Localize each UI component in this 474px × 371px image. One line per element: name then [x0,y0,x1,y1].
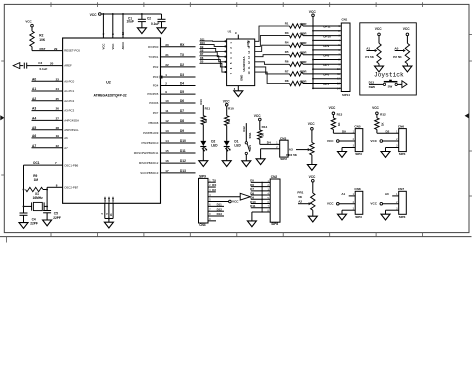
wire R14 to CN1 pin 1 net D4 [260,139,280,144]
svg-text:RST: RST [40,47,46,51]
svg-text:1K: 1K [260,133,264,137]
svg-text:C3: C3 [38,61,42,65]
svg-text:A3: A3 [289,148,293,152]
ground under D2 [199,161,208,167]
wire net D7 [161,112,196,114]
svg-text:SIP8: SIP8 [271,222,278,226]
svg-text:A6: A6 [32,134,36,138]
svg-text:R8: R8 [285,79,289,83]
svg-text:28: 28 [56,126,60,130]
svg-text:R10: R10 [228,107,234,111]
pin label OSC1-PB6 [64,163,78,167]
svg-text:A5PC5SCL: A5PC5SCL [64,128,79,132]
pin 15 / net label D11 [165,149,186,153]
svg-text:D7: D7 [180,109,184,113]
capacitor C3 0.1uF [20,61,48,71]
svg-text:VCC: VCC [327,202,334,206]
svg-text:32: 32 [165,63,169,67]
svg-text:26: 26 [56,107,60,111]
svg-text:R6: R6 [285,60,289,64]
wire / label 470R OP7 [300,60,342,67]
label A5 / pin 28 [32,126,59,130]
power VCC symbol (PR2) [308,122,315,130]
svg-text:SIP3: SIP3 [399,215,406,219]
resistor R11 1K [201,105,210,125]
svg-text:C2: C2 [147,17,151,21]
bottom border zone ticks [51,233,423,237]
wire OSC1 net [24,165,63,213]
svg-text:19: 19 [56,134,60,138]
label C1 10uF [127,17,134,24]
svg-text:1M: 1M [34,178,39,182]
svg-text:22: 22 [56,144,60,148]
connector CN4 body [341,23,350,92]
pin 13 / net label D9 [165,129,184,133]
wire R12 to CN6 pin 1 net D2 [377,129,399,133]
svg-text:VCC: VCC [254,114,261,118]
svg-text:D7: D7 [200,52,204,56]
ground under CN7 [381,214,390,220]
wire CN7 pin 2 VCC [383,201,399,204]
pin label A0-PC0 [64,79,74,83]
svg-text:31: 31 [165,53,169,57]
svg-text:D13: D13 [199,99,203,105]
potentiometer PR1 5K [297,182,315,210]
wire CN7 pin 3 to ground [386,207,399,214]
pin 17 / net label D13 [165,169,186,173]
svg-text:1K: 1K [227,119,231,123]
wire CN2 pin 6 net D10 [250,200,270,204]
wire net A4 [32,119,63,121]
pin 10 / net label D6 [165,99,184,103]
svg-text:1K: 1K [337,122,341,126]
pin label A3-PC3 [64,109,74,113]
wire CN3 pin 8 net D13 [208,212,224,216]
power VCC tap (CN5) [327,139,339,143]
wire CN8 pin 1 net A1 [341,192,355,196]
resistor R13 1K [331,115,341,130]
svg-text:13: 13 [165,129,169,133]
svg-text:OSC2-PB7: OSC2-PB7 [64,186,78,190]
pin 11 / net label D7 [165,109,184,113]
wire SW1 top [245,123,247,142]
wire PR1 to ground [312,210,314,216]
wire C5 to ground [46,213,48,220]
pin 32 / net label D2 [165,63,184,67]
svg-text:10: 10 [165,99,169,103]
svg-text:25: 25 [56,97,60,101]
pin label PW/D6 [149,101,158,105]
svg-text:SIP3: SIP3 [355,152,362,156]
connector CN6 labels [398,124,406,156]
ic U1 ULN2003A body [227,39,255,86]
svg-text:D8: D8 [180,119,184,123]
wire U2 power pin 6 stub [112,13,114,38]
label D13 SW0 [369,80,376,89]
pin label VCC [111,44,115,50]
svg-text:RESET-PC6: RESET-PC6 [64,49,80,53]
pin numbers 3 5 21 [102,213,113,217]
wires U1 outputs fan to resistors [255,26,290,84]
svg-text:D4: D4 [180,82,184,86]
resistor R3 470R [285,31,303,38]
connector CN2 body [270,179,280,222]
svg-text:D6: D6 [200,56,204,60]
svg-text:D12: D12 [217,207,223,211]
resistor R12 1K [375,115,385,130]
connector CN3 labels [199,174,206,227]
svg-text:D10: D10 [180,139,186,143]
net labels D11-D5 (U1 inputs) [200,37,205,63]
svg-text:PD7: PD7 [153,111,159,115]
capacitor C1 [138,19,146,21]
svg-text:D5: D5 [200,60,204,64]
svg-text:A0: A0 [394,46,398,50]
svg-text:SW1: SW1 [248,144,252,151]
led D2 [200,140,218,152]
connector CN6 body [399,129,407,152]
svg-text:A1: A1 [366,46,370,50]
power VCC symbol (CN4) [309,10,317,17]
wire CN2 vertical tie [261,182,262,213]
svg-text:PW/D6: PW/D6 [149,101,158,105]
svg-text:22PF: 22PF [53,216,61,220]
svg-text:PR2 5K: PR2 5K [286,153,298,157]
svg-text:A2: A2 [32,97,36,101]
wire net D8 [161,122,196,124]
wire VCC distribution to CN4 even pins [312,17,341,90]
wire CN2 pin 3 net D7 [250,187,270,191]
switch SW pushbutton [383,80,397,89]
power VCC symbol (R12) [372,106,386,117]
svg-text:GND: GND [240,75,244,81]
right border zone ticks [469,34,472,196]
pin 9 COM stub [235,31,238,39]
svg-text:A1: A1 [341,192,345,196]
wire CN3 pin 6 net D11 [208,203,224,207]
svg-text:14: 14 [165,139,169,143]
svg-text:SIP2: SIP2 [280,157,287,161]
svg-text:MOSI/PW/PB3/D11: MOSI/PW/PB3/D11 [134,151,159,155]
bottom-left border tick [6,237,8,243]
svg-text:10uF: 10uF [127,20,134,24]
svg-text:CN7: CN7 [398,187,404,191]
ground under CN6 [381,152,390,158]
svg-text:OP6: OP6 [323,73,329,77]
ground under P1 [375,66,384,72]
svg-text:VCC: VCC [232,200,239,204]
wires U1 input fan [200,40,227,73]
label A3 / pin 26 [32,107,59,111]
wire CN7 pin 1 net A0 [385,192,399,196]
label A7 / pin 22 [32,144,59,148]
power VCC tap (CN6) [370,139,382,143]
svg-text:OSC1-PB6: OSC1-PB6 [64,163,78,167]
ground under PR1 [308,216,317,222]
svg-text:R12: R12 [380,113,386,117]
pin 9 / net label D5 [165,90,184,94]
svg-text:A7: A7 [32,144,36,148]
pin number 18 [121,31,125,35]
wire LED D2 to ground [202,146,204,161]
resistor R5 470R [285,50,303,57]
svg-text:OC1: OC1 [33,161,40,165]
wire net D3 [161,76,196,78]
svg-text:VCC: VCC [308,122,315,126]
switch SW1 [245,132,252,155]
svg-text:D11: D11 [200,37,205,41]
power VCC symbol (top rail) [90,13,102,17]
resistor R9 1M [23,174,49,192]
wire net A3 [32,110,63,112]
svg-text:VCC: VCC [309,10,317,14]
pin label A6 [64,136,68,140]
potentiometer P2 5K [393,36,409,64]
ground under SW1 [242,161,251,167]
capacitor C2 [158,19,166,21]
wire CN3 pin 3 net D2 [208,188,216,192]
ground under CN5 [338,152,347,158]
svg-text:VCC: VCC [372,106,379,110]
svg-text:D11: D11 [217,203,223,207]
svg-text:D2: D2 [180,63,184,67]
svg-text:VCC: VCC [90,13,98,17]
ic U2 value label [93,94,126,98]
svg-text:VCC: VCC [370,139,377,143]
pin label PD4 [153,84,159,88]
wire net D6 [161,102,196,104]
svg-text:PR1: PR1 [297,190,303,194]
svg-text:CN8: CN8 [354,187,360,191]
pin 2 / net label D4 [165,82,184,86]
svg-text:Joystick: Joystick [374,72,404,79]
pin labels GND [103,197,115,203]
wire net D10 [161,142,196,144]
svg-text:A0: A0 [385,192,389,196]
svg-text:MISO/PB4/D12: MISO/PB4/D12 [139,161,159,165]
svg-text:OP8: OP8 [323,53,329,57]
pin 30 / net label RX [165,43,185,47]
svg-text:PB0/D8: PB0/D8 [148,121,158,125]
resistor R7 470R [285,69,303,76]
svg-text:470R: 470R [300,31,308,35]
sheet outer bottom border line [0,236,472,238]
svg-text:D10: D10 [200,41,205,45]
pin label SCK/PB5/D13 [140,171,158,175]
wire R10 to LED D1 [226,126,228,141]
svg-text:LED: LED [234,144,241,148]
svg-text:VCC: VCC [111,44,115,50]
wire C2 to ground [161,22,163,28]
resistor R2 10K [30,27,46,47]
wire net TX [161,56,196,58]
svg-text:CN4: CN4 [199,223,206,227]
wire CN1 pin 2 to ground [261,146,280,159]
svg-text:A4PC4SDA: A4PC4SDA [64,119,79,123]
svg-text:AVCC: AVCC [121,42,125,50]
pin label VCC [102,44,106,50]
svg-text:A4: A4 [32,117,36,121]
svg-text:A1: A1 [32,87,36,91]
capacitor C4 22PF [20,213,38,225]
svg-text:U2: U2 [106,81,111,85]
wire CN3 pin 1 net TX [208,178,216,182]
wire / label 470R OP8 [300,51,342,58]
svg-text:R5: R5 [285,50,289,54]
ground under C2 [157,28,166,34]
svg-text:PW/PD5: PW/PD5 [147,92,158,96]
ic U2 body [63,38,161,203]
label RST / pin 29 [40,47,58,51]
power VCC tap (CN8) [327,202,339,206]
wire CN2 pin 2 net D6 [250,183,270,187]
wire OSC2 net [47,187,63,210]
svg-text:GND: GND [111,197,115,203]
pin label PD2 [153,65,159,69]
svg-text:PW/PB1/D9: PW/PB1/D9 [143,131,159,135]
wire VCC top rail [101,13,161,15]
svg-text:D11: D11 [180,149,186,153]
power VCC symbol (R13) [329,106,343,117]
connector CN7 body [399,191,407,214]
svg-text:29: 29 [54,47,58,51]
svg-text:PW/PB2/D10: PW/PB2/D10 [142,141,159,145]
svg-text:D13: D13 [369,80,375,84]
svg-text:R3: R3 [285,31,289,35]
crystal X1 16MHz [23,192,49,210]
wire to switch SW [369,83,383,85]
svg-text:R1: R1 [285,21,289,25]
wire LED D1 to ground [226,146,228,161]
wire CN3 pin 7 net D12 [208,207,224,211]
pin label RX/PD0 [148,45,159,49]
svg-text:11: 11 [165,109,169,113]
svg-text:SIP3: SIP3 [399,152,406,156]
pin label A7 [64,146,68,150]
ground under U1 [234,91,243,97]
wire P2 to ground [406,64,408,66]
svg-text:RX/PD0: RX/PD0 [148,45,159,49]
pin label AVCC [121,42,125,50]
svg-text:D9: D9 [200,45,204,49]
wire / label 470R OP11 [300,22,342,29]
svg-text:SW1: SW1 [248,132,252,139]
ground under U2 [104,222,113,228]
wire P1 to ground [378,64,380,66]
svg-text:CN5: CN5 [354,124,360,128]
resistor R1 470R [285,21,303,28]
wire net A0 [32,80,63,82]
pin label MOSI/PW/PB3/D11 [134,151,159,155]
wire CN2 pin 5 net D9 [250,196,270,200]
svg-text:U1: U1 [228,30,232,34]
wire / label 470R OP6 [300,70,342,77]
resistor R8 470R [285,79,303,86]
svg-text:D13: D13 [217,212,223,216]
ground under C4 [19,223,28,229]
svg-text:LED: LED [211,144,218,148]
ground under PR2 [307,165,316,171]
svg-text:VCC: VCC [223,99,230,103]
svg-text:RX: RX [212,183,216,187]
top border zone ticks [51,2,423,7]
svg-text:A3-PC3: A3-PC3 [64,109,74,113]
svg-text:SIP9: SIP9 [199,174,206,178]
ground under C5 [43,220,52,226]
ground under P2 [403,66,412,72]
wire CN6 pin 3 to ground [386,145,399,152]
resistor R14 1K [258,121,268,140]
svg-text:D12: D12 [242,126,246,132]
wire net RX [161,46,196,48]
svg-text:470R: 470R [300,60,308,64]
svg-text:A7: A7 [64,146,68,150]
wire C4 to ground [23,215,25,222]
svg-text:27: 27 [56,117,60,121]
svg-text:P1 5K: P1 5K [365,55,374,59]
svg-text:ULN2003A: ULN2003A [242,56,246,72]
label OC1 / pin 7 [33,161,57,165]
pin label PW/PB2/D10 [142,141,159,145]
ic U1 refdes label [228,30,232,34]
svg-text:470R: 470R [300,41,308,45]
connector CN8 body [355,191,363,214]
svg-text:12: 12 [165,119,169,123]
wire U1 GND pin 8 [234,86,239,91]
wire / label 470R OP10 [300,31,342,38]
connector CN3 body [199,178,209,223]
node AREF input arrow [13,63,20,69]
wire CN3 pin 5 VCC [208,199,229,202]
wire net A6 [32,137,63,139]
wire U2 GND pins [105,203,113,222]
wire CN2 pin 1 net D5 [250,179,270,183]
svg-text:24: 24 [56,87,60,91]
net label D12 (rotated) [242,126,246,132]
svg-text:CN6: CN6 [398,124,404,128]
net label D13 (rotated) [199,99,203,105]
ground under D1 [222,161,231,167]
wire CN2 pin 8 to ground [252,209,270,220]
wire SW1 to ground [245,155,247,161]
power VCC symbol (R2) [25,20,33,27]
pin label PD7 [153,111,159,115]
node bus arrow (VCC) [240,193,250,200]
ic U2 refdes label [106,81,111,85]
resistor R4 470R [285,41,303,48]
power VCC symbol (P1) [375,27,382,36]
wire AREF to U2 [27,65,63,67]
pin label PW/PB1/D9 [143,131,159,135]
svg-text:R13: R13 [337,113,343,117]
svg-text:A2: A2 [298,199,302,203]
svg-text:PD2: PD2 [153,65,159,69]
pin numbers U1 inside [230,40,251,74]
svg-text:470R: 470R [300,79,308,83]
right border pointer arrow [465,113,469,118]
power VCC tap (CN7) [370,202,382,206]
pin label TX/PD1 [148,55,158,59]
svg-text:VCC: VCC [370,202,377,206]
power VCC symbol (R10) [223,99,230,106]
svg-text:30: 30 [165,43,169,47]
connector CN5 labels [354,124,362,156]
wire C2 stub [161,14,163,19]
wire CN3 pin 2 net RX [208,183,216,187]
connector CN1 labels [280,136,287,161]
svg-text:D5: D5 [180,90,184,94]
node output arrow (SW) [402,81,407,88]
